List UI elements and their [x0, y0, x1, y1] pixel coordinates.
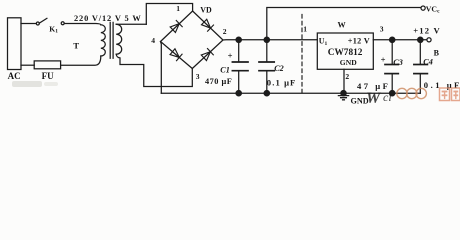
wire main rail bridge to regulator	[223, 39, 317, 41]
ground	[338, 93, 348, 100]
node VCc terminal	[421, 6, 425, 10]
diode VD2 upper-right	[201, 19, 213, 31]
diode VD3 lower-left	[170, 48, 182, 60]
svg-text:W: W	[366, 90, 382, 106]
wire pin2 to ground rail	[343, 69, 345, 93]
switch K1	[36, 22, 39, 25]
wire AC top to switch	[21, 23, 36, 25]
node C2 top junction	[264, 37, 269, 42]
svg-text:1: 1	[176, 4, 180, 13]
transformer core	[110, 22, 113, 58]
wire riser from C2 node to VCc rail	[267, 8, 421, 40]
dashed boundary W	[301, 15, 303, 94]
transformer T secondary winding	[116, 24, 122, 54]
regulator U1 box	[317, 33, 373, 69]
svg-text:B: B	[434, 48, 440, 57]
wire bridge left node down to bottom rail	[160, 42, 163, 94]
capacitor C4	[419, 40, 421, 64]
node C3 bottom junction	[390, 91, 395, 96]
svg-text:C3: C3	[393, 58, 403, 67]
watermark	[366, 88, 460, 107]
node C1 bottom junction	[236, 91, 241, 96]
svg-text:+: +	[228, 51, 233, 61]
node C3 top junction	[390, 37, 395, 42]
svg-text:3: 3	[380, 25, 384, 34]
svg-text:C1: C1	[220, 65, 230, 74]
capacitor C2	[266, 40, 268, 62]
svg-text:3: 3	[196, 72, 200, 81]
node C2 bottom junction	[264, 91, 269, 96]
AC source	[8, 18, 22, 70]
svg-text:AC: AC	[8, 71, 21, 81]
diode VD4 lower-right	[201, 49, 213, 61]
node GND junction	[341, 91, 346, 96]
svg-text:0.1 μF: 0.1 μF	[267, 78, 297, 88]
svg-text:+12 V: +12 V	[348, 37, 370, 46]
capacitor C1	[238, 40, 240, 62]
capacitor C3	[391, 40, 393, 64]
node +12V terminal	[427, 38, 431, 42]
svg-text:2: 2	[223, 27, 227, 36]
node C4 top junction	[418, 37, 423, 42]
svg-text:ci: ci	[383, 90, 392, 104]
svg-text:2: 2	[345, 72, 349, 81]
wire switch to transformer primary	[64, 24, 101, 25]
svg-text:T: T	[73, 41, 79, 51]
svg-text:GND: GND	[340, 58, 357, 67]
wire secondary bottom Z-route to bridge bottom node	[116, 54, 192, 86]
svg-text:FU: FU	[42, 71, 54, 81]
wire secondary top riser to bridge top node	[146, 4, 192, 25]
svg-text:C2: C2	[274, 64, 284, 73]
fuse FU	[34, 61, 60, 69]
wire bottom ground rail	[161, 92, 420, 94]
svg-text:4: 4	[151, 36, 155, 45]
svg-text:VD: VD	[200, 6, 212, 15]
faint bleed-through smudge	[12, 81, 42, 87]
wire fuse to transformer primary	[61, 56, 101, 65]
diode VD1 upper-left	[170, 20, 182, 32]
svg-text:+: +	[381, 55, 386, 65]
svg-text:CW7812: CW7812	[328, 48, 363, 58]
transformer T primary winding	[101, 25, 106, 56]
svg-text:220 V/12 V 5 W: 220 V/12 V 5 W	[74, 14, 142, 23]
node C1 top junction	[236, 37, 241, 42]
svg-text:+12 V: +12 V	[413, 26, 441, 36]
svg-text:470 μF: 470 μF	[205, 77, 232, 86]
svg-text:W: W	[338, 20, 347, 29]
wire pin3 output rail	[373, 39, 427, 41]
svg-text:C4: C4	[423, 58, 433, 67]
svg-text:1: 1	[303, 25, 307, 34]
wire AC bottom to fuse	[21, 64, 34, 66]
wire secondary top	[116, 23, 146, 25]
bridge rectifier VD diamond	[161, 11, 224, 69]
